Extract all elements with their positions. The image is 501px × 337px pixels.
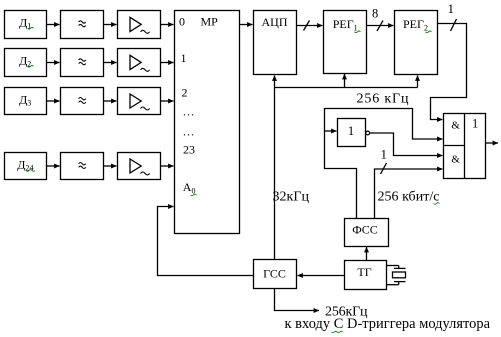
svg-text:Д2: Д2 — [19, 54, 31, 69]
svg-text:1: 1 — [472, 117, 478, 131]
svg-text:256 кГц: 256 кГц — [357, 92, 410, 107]
svg-text:ГСС: ГСС — [263, 267, 286, 281]
svg-text:1: 1 — [348, 123, 355, 138]
svg-text:ФСС: ФСС — [352, 223, 378, 237]
svg-text:2: 2 — [182, 85, 188, 99]
svg-text:32кГц: 32кГц — [273, 190, 310, 205]
svg-text:1: 1 — [448, 1, 455, 16]
svg-text:РЕГ1: РЕГ1 — [333, 17, 358, 33]
svg-text:ТГ: ТГ — [357, 265, 371, 279]
svg-text:…: … — [183, 105, 195, 119]
svg-text:МР: МР — [201, 15, 219, 29]
svg-text:0: 0 — [179, 15, 185, 29]
svg-text:Д1: Д1 — [19, 16, 31, 31]
svg-text:1: 1 — [181, 51, 187, 65]
svg-text:&: & — [451, 120, 460, 132]
svg-text:Д3: Д3 — [19, 92, 31, 107]
svg-text:…: … — [183, 125, 195, 139]
svg-text:&: & — [451, 154, 460, 166]
svg-text:256 кбит/с: 256 кбит/с — [378, 190, 440, 205]
svg-text:1: 1 — [381, 147, 388, 162]
svg-text:АЦП: АЦП — [262, 15, 288, 29]
svg-text:к входу С D-триггера модулятор: к входу С D-триггера модулятора — [285, 316, 491, 332]
svg-text:А0: А0 — [183, 180, 196, 196]
svg-text:РЕГ2: РЕГ2 — [403, 17, 428, 33]
svg-text:8: 8 — [372, 7, 378, 21]
svg-text:23: 23 — [183, 143, 195, 157]
